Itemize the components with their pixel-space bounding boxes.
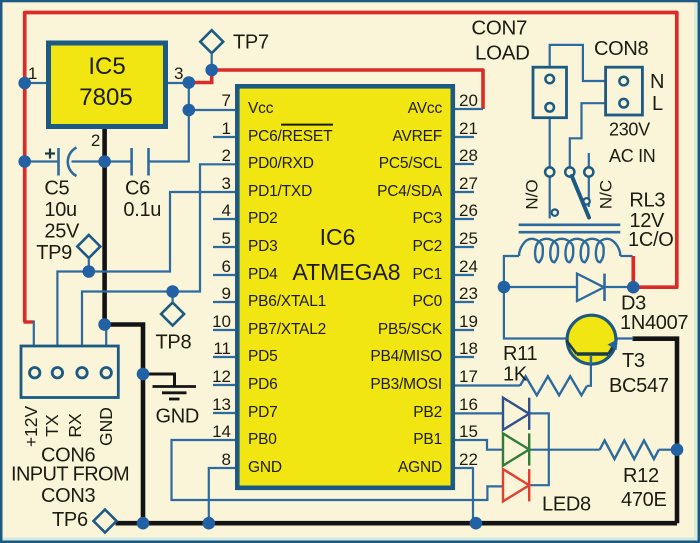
svg-text:10: 10 — [212, 312, 231, 331]
svg-text:PC1: PC1 — [412, 266, 442, 283]
svg-text:CON3: CON3 — [41, 485, 96, 507]
svg-text:RX: RX — [65, 413, 85, 438]
svg-text:21: 21 — [459, 119, 478, 138]
svg-text:18: 18 — [459, 339, 478, 358]
svg-text:1: 1 — [222, 119, 231, 138]
svg-text:BC547: BC547 — [609, 375, 669, 397]
svg-text:3: 3 — [174, 64, 183, 83]
svg-text:26: 26 — [459, 201, 478, 220]
svg-text:17: 17 — [459, 367, 478, 386]
svg-text:TP8: TP8 — [156, 332, 192, 354]
svg-text:2: 2 — [222, 146, 231, 165]
svg-text:25V: 25V — [44, 221, 80, 243]
svg-text:1: 1 — [28, 64, 37, 83]
svg-text:CON7: CON7 — [471, 16, 527, 39]
svg-text:1N4007: 1N4007 — [620, 312, 688, 334]
svg-text:5: 5 — [222, 229, 231, 248]
svg-text:28: 28 — [459, 146, 478, 165]
svg-text:T3: T3 — [622, 350, 645, 372]
svg-text:PB5/SCK: PB5/SCK — [378, 321, 443, 338]
svg-text:C6: C6 — [125, 178, 150, 200]
svg-text:19: 19 — [459, 312, 478, 331]
svg-text:GND: GND — [96, 407, 116, 446]
svg-text:C5: C5 — [44, 178, 69, 200]
svg-text:3: 3 — [222, 174, 231, 193]
svg-text:12: 12 — [212, 367, 231, 386]
svg-text:PC4/SDA: PC4/SDA — [377, 183, 443, 200]
svg-text:230V: 230V — [609, 120, 650, 140]
svg-text:LOAD: LOAD — [475, 41, 530, 64]
svg-text:PD4: PD4 — [248, 266, 278, 283]
svg-text:PD2: PD2 — [248, 210, 278, 227]
svg-text:AC IN: AC IN — [609, 146, 656, 166]
svg-text:PD6: PD6 — [248, 376, 278, 393]
svg-text:1C/O: 1C/O — [628, 229, 673, 251]
svg-text:15: 15 — [459, 422, 478, 441]
svg-text:20: 20 — [459, 91, 478, 110]
svg-text:8: 8 — [222, 450, 231, 469]
svg-text:13: 13 — [212, 395, 231, 414]
svg-text:2: 2 — [91, 131, 100, 150]
svg-text:7: 7 — [222, 91, 231, 110]
svg-text:R11: R11 — [503, 343, 537, 365]
svg-text:1K: 1K — [503, 364, 528, 386]
svg-text:23: 23 — [459, 284, 478, 303]
svg-text:AVcc: AVcc — [408, 100, 443, 117]
svg-text:PC5/SCL: PC5/SCL — [379, 155, 443, 172]
svg-text:TP9: TP9 — [36, 242, 72, 264]
svg-text:IC5: IC5 — [88, 53, 125, 80]
svg-text:CON8: CON8 — [594, 38, 649, 60]
svg-text:27: 27 — [459, 174, 478, 193]
svg-text:PB7/XTAL2: PB7/XTAL2 — [248, 321, 326, 338]
svg-text:0.1u: 0.1u — [123, 199, 161, 221]
svg-text:14: 14 — [212, 422, 231, 441]
svg-text:Vcc: Vcc — [248, 100, 274, 117]
svg-text:PB6/XTAL1: PB6/XTAL1 — [248, 293, 326, 310]
svg-text:TP6: TP6 — [52, 509, 88, 531]
svg-text:AGND: AGND — [398, 459, 442, 476]
svg-text:9: 9 — [222, 284, 231, 303]
svg-text:INPUT FROM: INPUT FROM — [11, 464, 129, 486]
svg-text:PB4/MISO: PB4/MISO — [370, 348, 442, 365]
svg-text:GND: GND — [248, 459, 282, 476]
svg-text:6: 6 — [222, 257, 231, 276]
svg-text:22: 22 — [459, 450, 478, 469]
svg-text:N: N — [650, 71, 664, 93]
svg-text:PB0: PB0 — [248, 431, 277, 448]
svg-text:PD5: PD5 — [248, 348, 278, 365]
svg-text:4: 4 — [222, 201, 231, 220]
svg-text:TX: TX — [42, 414, 62, 437]
svg-text:+12V: +12V — [21, 405, 41, 447]
svg-text:470E: 470E — [621, 489, 667, 511]
svg-text:PD0/RXD: PD0/RXD — [248, 155, 314, 172]
svg-text:PC0: PC0 — [412, 293, 442, 310]
svg-text:16: 16 — [459, 395, 478, 414]
svg-text:7805: 7805 — [79, 84, 132, 111]
svg-text:TP7: TP7 — [233, 32, 269, 54]
svg-text:PC6/RESET: PC6/RESET — [248, 128, 333, 145]
svg-text:PD7: PD7 — [248, 404, 278, 421]
svg-text:ATMEGA8: ATMEGA8 — [292, 259, 400, 285]
svg-text:PC3: PC3 — [412, 210, 442, 227]
svg-text:GND: GND — [156, 406, 200, 428]
svg-text:PB2: PB2 — [413, 404, 442, 421]
svg-text:PC2: PC2 — [412, 238, 442, 255]
svg-text:RL3: RL3 — [629, 190, 665, 212]
svg-text:11: 11 — [213, 339, 231, 358]
svg-text:N/O: N/O — [523, 179, 542, 209]
svg-text:R12: R12 — [623, 465, 659, 487]
svg-text:IC6: IC6 — [320, 224, 356, 250]
svg-text:10u: 10u — [44, 199, 76, 221]
svg-text:PB1: PB1 — [413, 431, 442, 448]
svg-text:PD3: PD3 — [248, 238, 278, 255]
svg-text:PB3/MOSI: PB3/MOSI — [370, 376, 442, 393]
svg-text:24: 24 — [459, 257, 478, 276]
svg-text:25: 25 — [459, 229, 478, 248]
svg-text:N/C: N/C — [597, 180, 616, 209]
svg-text:AVREF: AVREF — [392, 128, 442, 145]
svg-text:LED8: LED8 — [542, 494, 591, 516]
svg-text:PD1/TXD: PD1/TXD — [248, 183, 312, 200]
svg-text:L: L — [652, 93, 663, 115]
